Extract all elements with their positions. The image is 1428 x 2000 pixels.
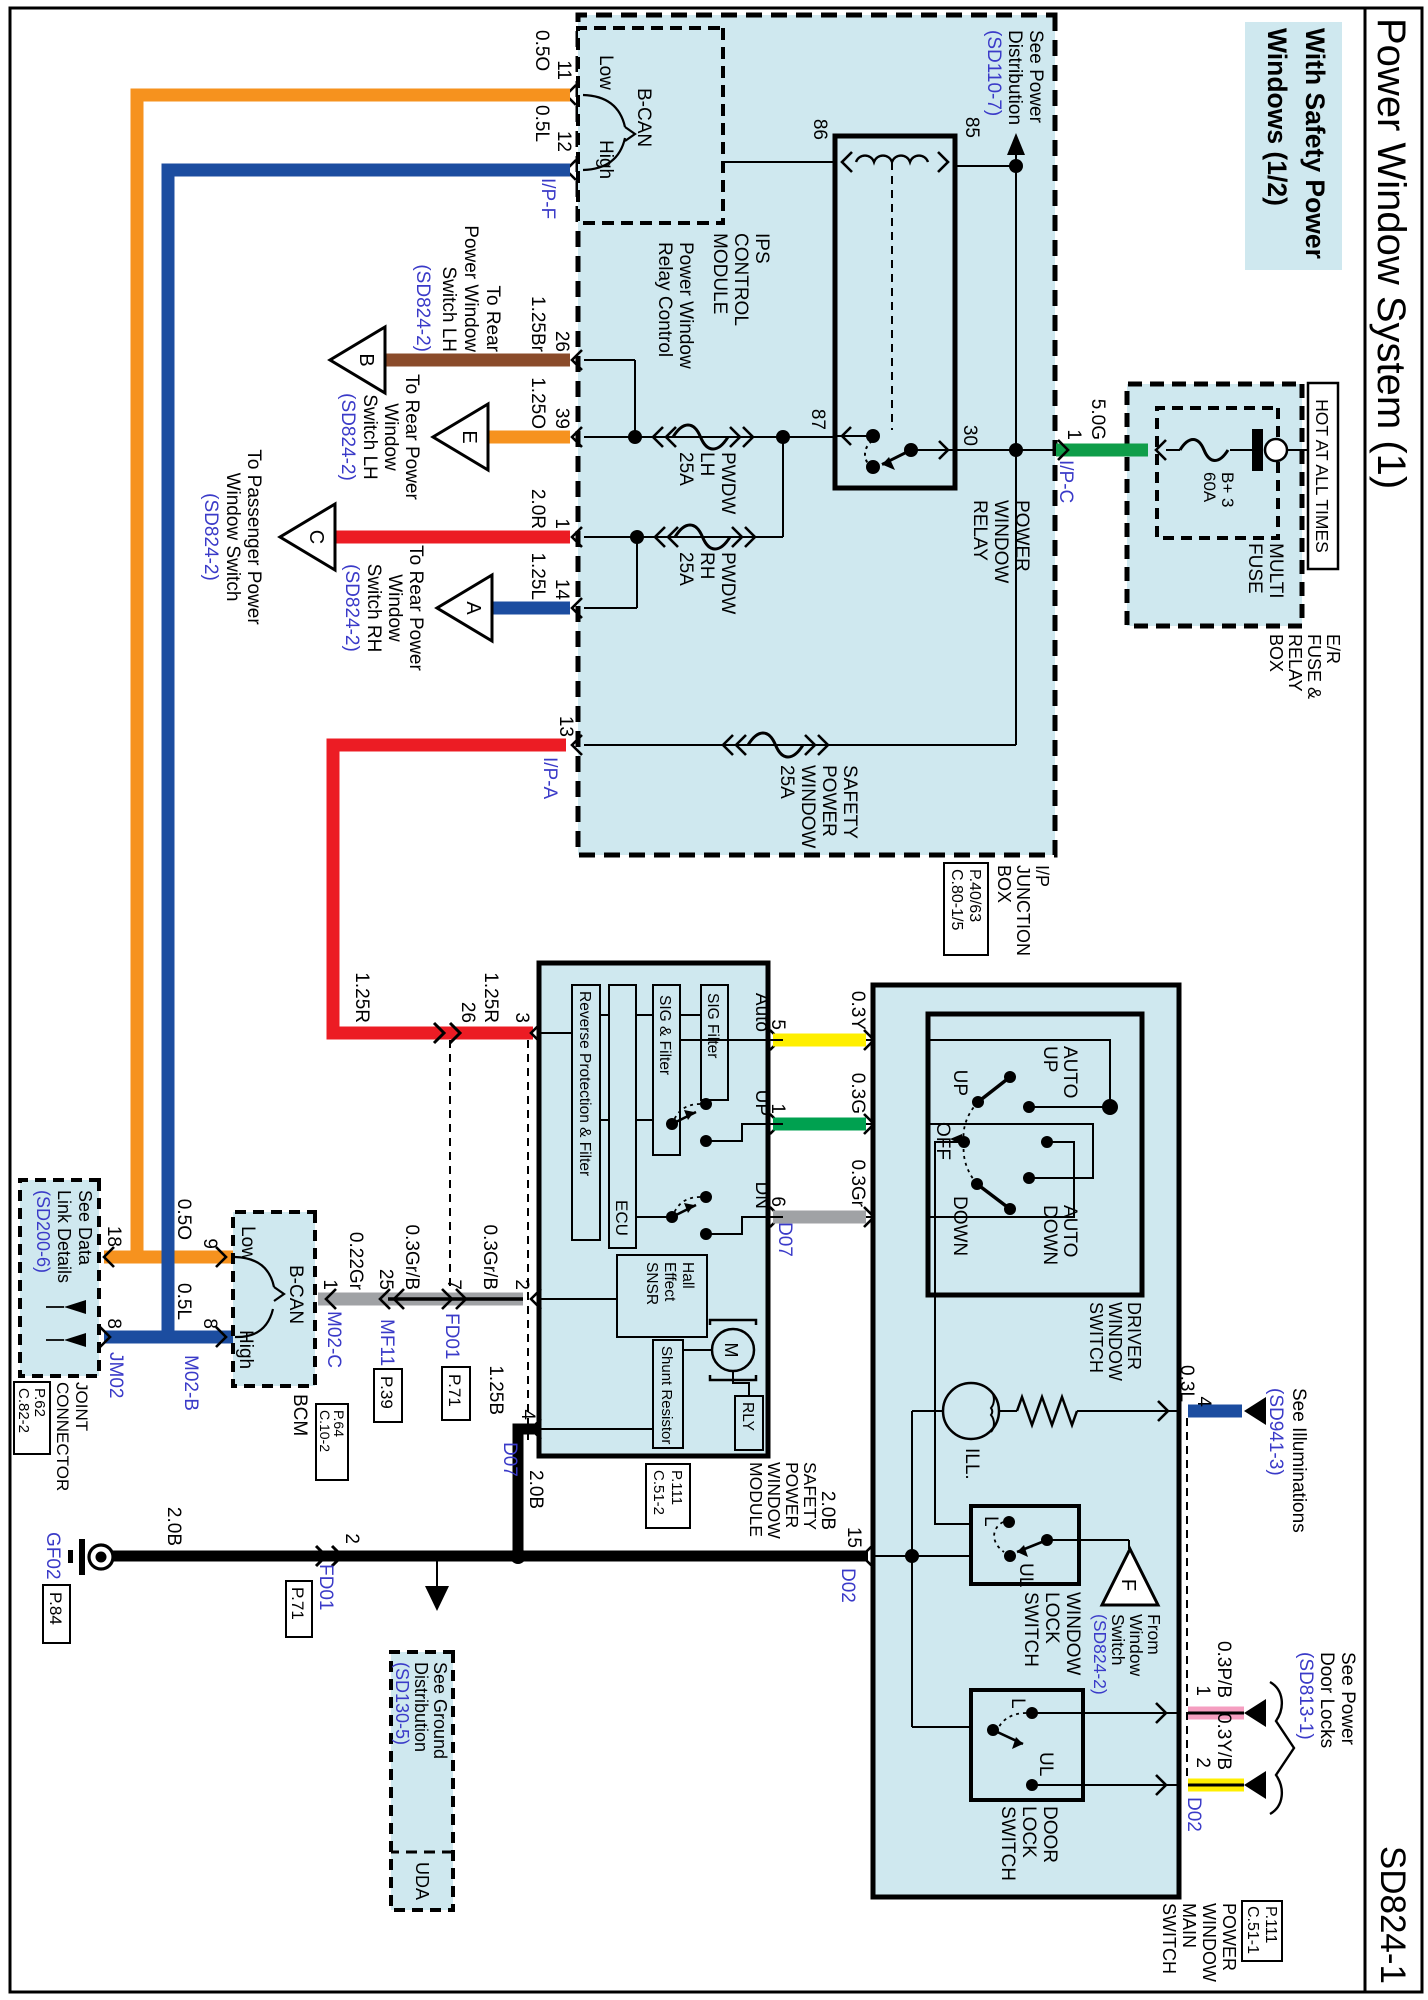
svg-text:D07: D07: [499, 1442, 520, 1477]
svg-text:0.3Y/B: 0.3Y/B: [1213, 1713, 1234, 1770]
svg-text:Switch: Switch: [1108, 1614, 1128, 1666]
svg-text:DRIVER: DRIVER: [1124, 1302, 1144, 1370]
svg-text:SIG Filter: SIG Filter: [704, 993, 721, 1058]
svg-text:0.3Gr: 0.3Gr: [847, 1159, 868, 1207]
svg-text:(SD130-5): (SD130-5): [392, 1662, 412, 1745]
svg-text:12: 12: [553, 131, 574, 152]
svg-text:30: 30: [959, 425, 980, 446]
svg-text:F: F: [1117, 1579, 1139, 1591]
svg-text:2: 2: [1192, 1757, 1213, 1768]
svg-text:0.3G: 0.3G: [847, 1073, 868, 1114]
svg-text:Hall: Hall: [679, 1262, 696, 1289]
svg-text:MODULE: MODULE: [746, 1462, 766, 1537]
svg-text:FD01: FD01: [441, 1313, 462, 1359]
svg-text:Windows (1/2): Windows (1/2): [1262, 28, 1292, 206]
svg-text:SAFETY: SAFETY: [839, 765, 860, 839]
svg-text:MULTI: MULTI: [1265, 543, 1286, 599]
svg-text:B: B: [355, 353, 377, 366]
svg-text:D07: D07: [774, 1222, 795, 1257]
svg-text:M02-B: M02-B: [180, 1355, 201, 1411]
svg-text:M: M: [721, 1343, 741, 1358]
svg-text:To Rear Power: To Rear Power: [401, 374, 422, 500]
svg-text:SWITCH: SWITCH: [997, 1806, 1018, 1881]
svg-text:0.5O: 0.5O: [531, 30, 552, 71]
svg-text:0.5L: 0.5L: [531, 105, 552, 142]
svg-text:D02: D02: [1183, 1797, 1204, 1832]
svg-text:87: 87: [807, 409, 828, 430]
svg-text:I/P-A: I/P-A: [539, 757, 560, 800]
svg-text:13: 13: [555, 716, 576, 737]
svg-text:0.5L: 0.5L: [173, 1283, 194, 1320]
svg-text:UL: UL: [1015, 1563, 1036, 1587]
svg-text:(SD824-2): (SD824-2): [1090, 1614, 1110, 1695]
svg-text:(SD824-2): (SD824-2): [412, 264, 433, 352]
svg-text:Distribution: Distribution: [1004, 30, 1025, 125]
svg-text:14: 14: [551, 579, 572, 601]
svg-text:DOWN: DOWN: [1039, 1205, 1060, 1265]
svg-text:0.3Gr/B: 0.3Gr/B: [479, 1225, 500, 1290]
svg-text:See Power: See Power: [1337, 1652, 1358, 1746]
svg-text:85: 85: [961, 117, 982, 138]
svg-text:Low: Low: [237, 1226, 258, 1261]
svg-text:Window: Window: [384, 574, 405, 642]
svg-text:WINDOW: WINDOW: [797, 765, 818, 848]
svg-text:SIG & Filter: SIG & Filter: [656, 995, 673, 1075]
svg-text:1: 1: [551, 518, 572, 529]
svg-text:Door Locks: Door Locks: [1316, 1652, 1337, 1748]
svg-text:8: 8: [103, 1318, 124, 1329]
svg-text:B+ 3: B+ 3: [1218, 472, 1237, 507]
svg-text:2: 2: [511, 1279, 532, 1290]
svg-text:0.3P/B: 0.3P/B: [1213, 1641, 1234, 1698]
svg-text:AUTO: AUTO: [1059, 1205, 1080, 1257]
svg-text:2.0B: 2.0B: [817, 1491, 838, 1530]
svg-text:POWER: POWER: [1219, 1903, 1239, 1971]
svg-text:DOWN: DOWN: [949, 1196, 970, 1256]
svg-text:25A: 25A: [675, 452, 696, 486]
svg-text:POWER: POWER: [1011, 500, 1032, 572]
svg-text:MODULE: MODULE: [709, 233, 730, 314]
svg-text:WINDOW: WINDOW: [1062, 1592, 1083, 1675]
svg-text:M02-C: M02-C: [323, 1311, 344, 1368]
svg-text:AUTO: AUTO: [1059, 1046, 1080, 1098]
svg-text:MF11: MF11: [376, 1319, 397, 1366]
svg-text:BOX: BOX: [994, 865, 1014, 903]
svg-text:To Rear: To Rear: [482, 285, 503, 352]
svg-text:A: A: [462, 601, 484, 615]
svg-text:I/P-C: I/P-C: [1055, 460, 1076, 503]
svg-text:P.71: P.71: [288, 1587, 307, 1620]
svg-text:GF02: GF02: [42, 1532, 63, 1580]
svg-text:BOX: BOX: [1266, 634, 1286, 672]
svg-text:0.3Gr/B: 0.3Gr/B: [401, 1225, 422, 1290]
svg-text:Power Window System (1): Power Window System (1): [1369, 18, 1413, 489]
svg-text:RELAY: RELAY: [1285, 634, 1305, 692]
svg-text:SWITCH: SWITCH: [1020, 1592, 1041, 1667]
svg-text:WINDOW: WINDOW: [1105, 1302, 1125, 1381]
svg-text:(SD110-7): (SD110-7): [983, 30, 1004, 116]
svg-text:L: L: [1007, 1698, 1028, 1709]
svg-text:WINDOW: WINDOW: [1199, 1903, 1219, 1982]
svg-text:Low: Low: [595, 55, 616, 90]
svg-text:1: 1: [319, 1279, 340, 1290]
svg-text:See Ground: See Ground: [430, 1662, 450, 1759]
svg-text:P.111: P.111: [1262, 1906, 1279, 1943]
svg-text:Reverse Protection & Filter: Reverse Protection & Filter: [576, 991, 593, 1176]
svg-text:To Passenger Power: To Passenger Power: [243, 449, 264, 625]
svg-text:8: 8: [199, 1318, 220, 1329]
svg-text:IPS: IPS: [751, 233, 772, 264]
svg-text:C.80-1/5: C.80-1/5: [948, 869, 965, 930]
svg-text:1.25Br: 1.25Br: [527, 296, 548, 353]
svg-text:25: 25: [375, 1269, 396, 1290]
svg-text:SWITCH: SWITCH: [1086, 1302, 1106, 1373]
svg-text:Switch LH: Switch LH: [359, 394, 380, 480]
svg-text:C.82-2: C.82-2: [15, 1388, 32, 1433]
svg-text:1.25O: 1.25O: [527, 377, 548, 429]
svg-text:To Rear Power: To Rear Power: [405, 545, 426, 671]
svg-text:3: 3: [511, 1012, 532, 1023]
svg-text:I/P: I/P: [1032, 865, 1052, 887]
svg-text:(SD941-3): (SD941-3): [1265, 1388, 1286, 1476]
svg-text:POWER: POWER: [782, 1462, 802, 1528]
svg-text:7: 7: [443, 1279, 464, 1290]
svg-text:JOINT: JOINT: [72, 1382, 91, 1431]
svg-text:6: 6: [767, 1196, 788, 1207]
svg-text:25A: 25A: [776, 765, 797, 799]
svg-text:P.40/63: P.40/63: [966, 869, 983, 922]
svg-text:WINDOW: WINDOW: [990, 500, 1011, 583]
svg-text:2.0R: 2.0R: [527, 489, 548, 529]
svg-text:9: 9: [199, 1238, 220, 1249]
svg-text:86: 86: [809, 119, 830, 140]
svg-text:CONTROL: CONTROL: [730, 233, 751, 326]
svg-text:1: 1: [1063, 429, 1084, 440]
svg-text:0.3Y: 0.3Y: [847, 991, 868, 1030]
svg-text:FUSE &: FUSE &: [1304, 634, 1324, 699]
svg-text:JM02: JM02: [105, 1352, 126, 1398]
svg-text:Window: Window: [380, 403, 401, 471]
svg-text:P.84: P.84: [46, 1592, 65, 1625]
svg-text:P.64: P.64: [331, 1410, 347, 1437]
svg-text:(SD824-2): (SD824-2): [341, 564, 362, 652]
svg-text:I/P-F: I/P-F: [537, 178, 558, 219]
svg-text:1.25B: 1.25B: [485, 1365, 506, 1415]
svg-text:B-CAN: B-CAN: [285, 1265, 306, 1324]
svg-text:Relay Control: Relay Control: [654, 242, 675, 357]
svg-text:From: From: [1144, 1614, 1164, 1655]
svg-text:2.0B: 2.0B: [163, 1507, 184, 1546]
svg-text:E: E: [458, 430, 480, 443]
svg-text:See Illuminations: See Illuminations: [1288, 1388, 1309, 1533]
svg-text:E/R: E/R: [1323, 634, 1343, 664]
svg-text:Effect: Effect: [661, 1262, 678, 1302]
svg-text:RELAY: RELAY: [969, 500, 990, 561]
svg-text:See Power: See Power: [1025, 30, 1046, 124]
svg-text:4: 4: [1193, 1396, 1214, 1407]
svg-text:P.71: P.71: [445, 1374, 464, 1407]
svg-text:0.5O: 0.5O: [173, 1199, 194, 1240]
svg-text:HOT AT ALL TIMES: HOT AT ALL TIMES: [1312, 399, 1332, 553]
svg-text:26: 26: [551, 331, 572, 352]
svg-text:(SD813-1): (SD813-1): [1295, 1652, 1316, 1740]
svg-text:5: 5: [767, 1019, 788, 1030]
svg-text:Shunt Resistor: Shunt Resistor: [658, 1346, 675, 1444]
svg-text:Window: Window: [1126, 1614, 1146, 1677]
svg-text:0.22Gr: 0.22Gr: [345, 1232, 366, 1291]
svg-text:RLY: RLY: [739, 1402, 756, 1431]
svg-text:See Data: See Data: [75, 1190, 95, 1266]
svg-text:26: 26: [457, 1002, 478, 1023]
svg-text:POWER: POWER: [818, 765, 839, 837]
svg-text:C: C: [305, 530, 327, 544]
svg-text:UL: UL: [1035, 1752, 1056, 1776]
svg-text:Switch LH: Switch LH: [438, 266, 459, 352]
svg-text:Power Window: Power Window: [675, 242, 696, 369]
svg-text:B-CAN: B-CAN: [633, 88, 654, 147]
svg-text:UP: UP: [1039, 1046, 1060, 1072]
svg-text:C.51-1: C.51-1: [1244, 1906, 1261, 1954]
svg-text:MAIN: MAIN: [1179, 1903, 1199, 1948]
svg-text:60A: 60A: [1200, 472, 1219, 503]
svg-text:1.25L: 1.25L: [527, 552, 548, 600]
svg-text:39: 39: [551, 408, 572, 429]
svg-text:Power Window: Power Window: [460, 225, 481, 352]
svg-text:RH: RH: [696, 552, 717, 579]
svg-text:P.62: P.62: [31, 1388, 48, 1417]
svg-text:Link Details: Link Details: [54, 1190, 74, 1283]
svg-text:JUNCTION: JUNCTION: [1013, 865, 1033, 956]
svg-text:FUSE: FUSE: [1244, 543, 1265, 594]
svg-text:(SD824-2): (SD824-2): [337, 393, 358, 481]
svg-text:1: 1: [767, 1103, 788, 1114]
svg-text:SD824-1: SD824-1: [1373, 1846, 1412, 1984]
svg-text:(SD200-6): (SD200-6): [33, 1190, 53, 1273]
svg-text:1.25R: 1.25R: [351, 972, 372, 1023]
svg-text:SNSR: SNSR: [643, 1262, 660, 1305]
svg-text:5.0G: 5.0G: [1087, 399, 1108, 440]
svg-text:PWDW: PWDW: [717, 552, 738, 614]
svg-text:4: 4: [517, 1409, 538, 1420]
svg-text:25A: 25A: [675, 552, 696, 586]
svg-text:1.25R: 1.25R: [480, 972, 501, 1023]
svg-text:UP: UP: [949, 1070, 970, 1096]
svg-text:2: 2: [341, 1533, 362, 1544]
svg-text:ILL.: ILL.: [961, 1448, 982, 1480]
svg-text:Window Switch: Window Switch: [222, 473, 243, 602]
svg-text:Switch RH: Switch RH: [363, 564, 384, 653]
svg-text:15: 15: [843, 1527, 864, 1548]
svg-text:LOCK: LOCK: [1018, 1806, 1039, 1858]
svg-text:P.39: P.39: [377, 1376, 396, 1409]
svg-text:CONNECTOR: CONNECTOR: [53, 1382, 72, 1491]
svg-text:With Safety Power: With Safety Power: [1300, 28, 1330, 259]
svg-text:C.51-2: C.51-2: [650, 1470, 667, 1515]
svg-text:2.0B: 2.0B: [525, 1470, 546, 1509]
svg-text:18: 18: [103, 1226, 124, 1247]
svg-text:PWDW: PWDW: [717, 452, 738, 514]
svg-text:UDA: UDA: [412, 1862, 432, 1900]
svg-text:BCM: BCM: [289, 1394, 310, 1436]
svg-text:FD01: FD01: [315, 1564, 336, 1610]
svg-text:LH: LH: [696, 452, 717, 476]
svg-text:1: 1: [1192, 1685, 1213, 1696]
svg-text:L: L: [980, 1516, 1001, 1527]
svg-text:C.10-2: C.10-2: [317, 1410, 333, 1452]
svg-text:DOOR: DOOR: [1039, 1806, 1060, 1863]
svg-text:P.111: P.111: [668, 1470, 685, 1505]
svg-text:SWITCH: SWITCH: [1159, 1903, 1179, 1974]
svg-text:ECU: ECU: [612, 1200, 631, 1236]
svg-text:WINDOW: WINDOW: [764, 1462, 784, 1539]
svg-text:LOCK: LOCK: [1041, 1592, 1062, 1644]
svg-text:D02: D02: [837, 1568, 858, 1603]
svg-text:Distribution: Distribution: [411, 1662, 431, 1752]
svg-text:11: 11: [553, 60, 574, 80]
svg-text:(SD824-2): (SD824-2): [200, 493, 221, 581]
